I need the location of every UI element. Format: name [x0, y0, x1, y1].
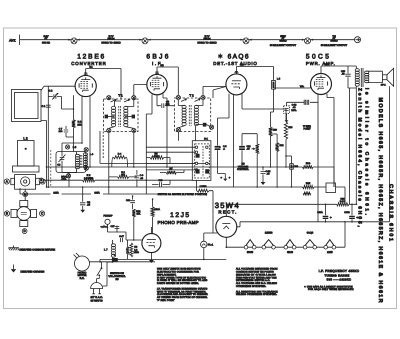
wire right rail b: [349, 88, 351, 204]
svg-text:I.F. FREQUENCY 455KC: I.F. FREQUENCY 455KC: [319, 269, 360, 273]
wire 12J5 plate: [150, 227, 152, 234]
svg-text:12BE6: 12BE6: [265, 232, 273, 235]
svg-text:L 2: L 2: [23, 136, 28, 140]
svg-text:R 2: R 2: [87, 174, 91, 177]
svg-text:FROM: FROM: [203, 37, 210, 40]
svg-text:12J5: 12J5: [327, 251, 333, 254]
svg-text:IS USED IT WILL BE NECESSARY T: IS USED IT WILL BE NECESSARY TO ADD: [157, 279, 208, 282]
resistor R20: [126, 240, 129, 259]
terminal D: [22, 229, 27, 234]
wire left rail top: [47, 86, 49, 120]
wire rail down: [333, 167, 335, 187]
svg-text:PICKUP: PICKUP: [104, 214, 113, 217]
svg-text:AS VIEWED FROM BOTTOM OF CHASS: AS VIEWED FROM BOTTOM OF CHASSIS.: [157, 296, 208, 299]
loop antenna L1: [12, 90, 42, 122]
wire 12BE6 plate cap to T1: [84, 65, 121, 99]
svg-text:'F' REF.: 'F' REF.: [303, 125, 311, 128]
screw T2 right: [210, 125, 214, 129]
variable capacitor C3: [57, 152, 65, 169]
wire B+ down right: [355, 86, 357, 204]
svg-text:DET.-1ST AUDIO: DET.-1ST AUDIO: [213, 61, 257, 66]
svg-text:DETERMINING SWITCH A.C.: DETERMINING SWITCH A.C.: [236, 279, 270, 282]
svg-text:C 2: C 2: [49, 90, 53, 93]
svg-text:SP-1: SP-1: [381, 84, 387, 87]
node signal point 3: [240, 38, 251, 44]
wire 35W4 heater down: [225, 237, 227, 247]
resistor R3: [72, 120, 82, 128]
wire 50C5 screen: [327, 94, 334, 167]
screw T2 top-right: [201, 95, 205, 99]
svg-text:12J5: 12J5: [170, 212, 189, 219]
capacitor C4: [80, 187, 91, 213]
svg-text:455KC: 455KC: [279, 40, 287, 43]
resistor R15: [303, 182, 327, 189]
svg-text:DENOTES COMMON RETURN: DENOTES COMMON RETURN: [20, 249, 56, 252]
phono motor B1: [74, 253, 90, 280]
wire plug to L7: [103, 262, 113, 286]
wire T2 primary: [178, 100, 185, 128]
svg-text:MEG: MEG: [134, 251, 139, 254]
T2 secondary coil: [194, 99, 200, 126]
svg-text:SWITCH S1 SHOWN IN PHONO POSIT: SWITCH S1 SHOWN IN PHONO POSITION: [158, 193, 208, 196]
tube 6BJ6 V2: [147, 74, 167, 94]
tube 35W4 V5: [216, 216, 237, 237]
capacitor C18b: [119, 235, 124, 242]
capacitor C18: [287, 100, 319, 112]
T1 core: [119, 106, 121, 127]
svg-text:135A: 135A: [53, 192, 59, 195]
label 655uV AT 455KC 30 MILLIWATT OUTPUT: [270, 35, 297, 47]
wire left rail 48 extension: [47, 121, 49, 189]
svg-text:50C5: 50C5: [306, 53, 329, 60]
svg-text:ALL VOLTAGES ARE D.C. UNLESS: ALL VOLTAGES ARE D.C. UNLESS: [236, 282, 277, 285]
terminal M: [23, 192, 28, 197]
svg-text:35 WATTS: 35 WATTS: [91, 299, 103, 302]
wire T1 primary: [109, 101, 121, 128]
svg-text:1.5 MEG: 1.5 MEG: [84, 177, 93, 180]
terminal E wire: [39, 178, 43, 182]
label 3.0V AT 600KC: [42, 35, 50, 45]
vertical note Zenith H664: [357, 88, 370, 228]
capacitor C19B: [344, 204, 358, 222]
svg-text:6AQ6: 6AQ6: [307, 232, 314, 235]
shielded pickup lead: [101, 219, 118, 232]
pilot lamp PL-1: [201, 241, 214, 247]
wire T1 box dashed drop: [102, 132, 104, 160]
svg-text:FROM: FROM: [107, 37, 114, 40]
wire T2 bottom down: [194, 126, 196, 141]
svg-text:✶ 6AQ6: ✶ 6AQ6: [218, 53, 249, 60]
svg-text:600 KC: 600 KC: [42, 42, 50, 45]
wire right rail a: [333, 167, 335, 187]
T1 trimmer left: [105, 115, 115, 119]
output transformer T3 primary: [355, 69, 359, 87]
label 12BE6 CONVERTER: [71, 53, 106, 66]
resistor R21: [303, 192, 311, 195]
resistor R19: [151, 199, 160, 234]
wire rail 163: [146, 162, 210, 164]
coil L7: [104, 240, 115, 262]
wire 6AQ6 down 1: [218, 94, 230, 139]
svg-text:C 1: C 1: [42, 105, 46, 108]
filter line: [318, 221, 390, 223]
wire 50C5 plate top: [321, 63, 356, 74]
capacitor C8: [215, 139, 231, 181]
volume control R9: [252, 144, 259, 187]
capacitor C1: [42, 105, 51, 108]
wire r6: [146, 158, 170, 164]
note IF transformer numbering: [157, 287, 208, 302]
screw T2 top-left: [176, 95, 180, 99]
wire motor line: [90, 259, 156, 261]
ground legend chassis: [11, 265, 45, 274]
resistor R7: [160, 167, 184, 174]
output transformer secondary: [365, 71, 369, 83]
wire c14 top: [286, 155, 292, 157]
wire signal line: [20, 39, 357, 41]
label 7.5 AT 400 50 MILLIWATT OUTPUT: [321, 35, 348, 47]
resistor R2: [77, 174, 193, 182]
svg-text:50 MILLIWATT OUTPUT: 50 MILLIWATT OUTPUT: [321, 44, 348, 47]
heater 12BE6 pair: [262, 232, 275, 249]
svg-text:CLOCKWISE AND ADJACENT TO NUMB: CLOCKWISE AND ADJACENT TO NUMBER: [157, 293, 208, 296]
wire T1 return L: [100, 131, 146, 163]
wire det top link: [242, 134, 257, 144]
resistor R8: [130, 243, 139, 257]
svg-text:R14: R14: [306, 162, 311, 165]
switch S1 box: [192, 138, 211, 181]
label 12J5 PHONO PRE-AMP: [158, 212, 199, 225]
heater 12J5 pair: [324, 240, 336, 255]
wire speaker return: [389, 86, 391, 222]
svg-text:CONTROL: CONTROL: [237, 168, 249, 171]
wire lower bus left end: [19, 188, 21, 194]
svg-text:535 ——1620KC: 535 ——1620KC: [327, 277, 352, 281]
screw T1 top-left: [107, 96, 111, 100]
wire secondary to speaker: [366, 71, 383, 82]
svg-text:COMMON RETURN TIE POINTS: COMMON RETURN TIE POINTS: [236, 271, 274, 274]
antenna connector socket: [11, 175, 40, 190]
node signal point 1: [68, 38, 79, 44]
tube 6AQ6 V3: [226, 74, 247, 95]
svg-text:600KC TO 455KC: 600KC TO 455KC: [197, 42, 216, 45]
svg-text:R15: R15: [306, 182, 311, 185]
note resistor tolerance: [236, 290, 278, 296]
vertical title MODELS: [377, 98, 394, 303]
svg-text:600KC TO 455KC: 600KC TO 455KC: [101, 42, 120, 45]
svg-text:T 1: T 1: [118, 93, 123, 97]
svg-text:FOR 6AQ6 ONLY WHEN NECESSARY.: FOR 6AQ6 ONLY WHEN NECESSARY.: [308, 288, 354, 291]
wire filament chain: [226, 246, 345, 248]
label 35W4 RECT: [215, 201, 239, 214]
wire osc grid: [62, 95, 74, 120]
wire avc vertical: [233, 95, 235, 187]
capacitor C15: [341, 66, 356, 88]
svg-text:R19A: R19A: [154, 208, 160, 211]
svg-text:ELECTROLYTIC CONDENSER FOR: ELECTROLYTIC CONDENSER FOR: [157, 271, 199, 274]
wire 6AQ6 down 2: [242, 94, 286, 110]
label 2.7V FROM 600KC TO 455KC (2): [197, 35, 216, 45]
node signal point 4: [302, 38, 313, 44]
terminal C: [40, 211, 45, 216]
svg-text:R.C.: R.C.: [80, 277, 85, 280]
coupling L6: [272, 78, 281, 90]
note 6AT6 substitute: [304, 285, 354, 291]
svg-text:2.2 M: 2.2 M: [340, 200, 346, 203]
capacitor C7: [59, 126, 74, 137]
svg-text:V.G.: V.G.: [300, 85, 305, 88]
wire grid 12J5: [117, 217, 142, 240]
screw T2 bottom-left: [176, 128, 180, 132]
svg-text:+: +: [330, 215, 332, 219]
capacitor C12: [239, 134, 251, 167]
wire T1 right screw down: [133, 133, 135, 167]
screw T1 bottom-right: [132, 128, 136, 132]
wire common bus: [47, 186, 303, 188]
label 50C5 PWR AMP: [306, 53, 335, 66]
note voltages measured: [236, 268, 278, 288]
svg-text:1 MEG: 1 MEG: [200, 185, 207, 188]
screw T1 bottom-left: [107, 128, 111, 132]
IF transformer T2 box: [174, 93, 210, 131]
screw L3 adjust: [66, 145, 77, 149]
ground legend common return: [9, 246, 56, 252]
wire chain end up: [344, 222, 346, 247]
component box right: [326, 183, 345, 204]
svg-text:E: E: [40, 178, 42, 182]
svg-text:S-1: S-1: [204, 138, 208, 141]
capacitor C11 dashed: [284, 106, 290, 123]
capacitor C14: [290, 156, 299, 187]
terminal B: [4, 211, 9, 216]
wire 50C5 cathode: [317, 95, 319, 222]
svg-text:47K: 47K: [121, 173, 125, 176]
wire 35W4 plate: [226, 204, 302, 216]
svg-text:REPLACEMENT.: REPLACEMENT.: [157, 273, 177, 276]
wire AVC rail: [47, 166, 303, 168]
label 6BJ6 I.F.: [146, 53, 168, 66]
resistor R13: [284, 109, 293, 167]
svg-text:ALL RESISTORS 20% TOLERANCE: ALL RESISTORS 20% TOLERANCE: [236, 290, 278, 293]
trimmer capacitor C2: [48, 90, 61, 110]
T1 primary coil: [111, 99, 117, 127]
wire pilot: [204, 233, 217, 259]
wire 6BJ6 screen: [163, 94, 167, 168]
capacitor C13: [261, 167, 272, 185]
T2 primary coil: [181, 99, 187, 126]
svg-text:47K: 47K: [136, 212, 140, 215]
label 2.7V FROM 600KC TO 455KC: [101, 35, 120, 45]
label R9 VOLUME CONTROL: [237, 163, 249, 172]
svg-text:135A: 135A: [94, 192, 100, 195]
svg-text:PARTS SHOWN IN DOTTED LINES.: PARTS SHOWN IN DOTTED LINES.: [157, 282, 199, 285]
svg-text:✶ USE 6AT6 AS A DIRECT SUBSTIT: ✶ USE 6AT6 AS A DIRECT SUBSTITUTE: [304, 285, 353, 288]
antenna terminal ANT: [9, 35, 19, 46]
label RAD CH-L: [61, 175, 67, 181]
svg-text:MFD.: MFD.: [291, 109, 297, 112]
svg-text:PHONO PRE-AMP: PHONO PRE-AMP: [158, 220, 199, 225]
resistor R10: [269, 112, 278, 167]
coil L4: [83, 148, 93, 171]
IF transformer T1 box: [104, 93, 139, 131]
wire bottom bus: [100, 258, 226, 260]
wire loop to converter grid: [41, 86, 75, 90]
switch on volume control: [97, 262, 126, 281]
resistor R18: [132, 209, 141, 217]
svg-text:C19B: C19B: [344, 211, 350, 214]
T2 core: [189, 105, 191, 126]
rod antenna L2: [13, 141, 40, 173]
capacitor C5: [157, 95, 174, 108]
svg-text:I.F. TRANSFORMER NUMBERING STA: I.F. TRANSFORMER NUMBERING STARTS: [157, 287, 208, 290]
speaker SP-1: [381, 68, 394, 86]
svg-text:470K: 470K: [153, 155, 159, 158]
svg-text:6BJ6: 6BJ6: [287, 251, 293, 254]
output transformer core: [361, 68, 363, 87]
svg-text:C-18: C-18: [292, 104, 298, 107]
svg-text:L 7: L 7: [104, 248, 108, 251]
wire osc box bottom: [62, 169, 77, 188]
resistor R16: [303, 197, 357, 206]
wire 6BJ6 cathode: [146, 95, 152, 195]
svg-text:30 MILLIWATT OUTPUT: 30 MILLIWATT OUTPUT: [270, 44, 297, 47]
oscillator coil L3 box: [56, 152, 86, 173]
svg-text:PL-1: PL-1: [208, 244, 214, 247]
svg-text:10K: 10K: [77, 123, 82, 126]
wire T1 left screw down: [108, 133, 110, 194]
tube 12BE6 V1: [75, 75, 96, 96]
wire lower bus: [20, 192, 157, 195]
svg-text:50C5: 50C5: [247, 251, 254, 254]
wire T2 left screw down: [177, 132, 179, 141]
node signal end point: [355, 37, 361, 43]
wire T2 secondary top to diode: [195, 87, 226, 106]
svg-text:400KC: 400KC: [330, 40, 338, 43]
wire 6AQ6 plate top: [234, 63, 273, 80]
resistor R14: [303, 162, 335, 169]
screw T1 top-right: [132, 96, 136, 100]
svg-text:C-13: C-13: [266, 170, 272, 173]
label F REF POINT: [303, 125, 311, 131]
capacitor C16: [126, 196, 135, 209]
svg-text:OTHERWISE SPECIFIED.: OTHERWISE SPECIFIED.: [236, 285, 266, 288]
svg-text:(INDICATED BY +) WITH A 20,000: (INDICATED BY +) WITH A 20,000: [236, 273, 276, 276]
tuning gang dashed link: [50, 150, 52, 186]
label 6AQ6 DET-1ST AUDIO: [213, 53, 257, 66]
wire 6AQ6 left grid: [213, 87, 226, 99]
svg-text:117V: 117V: [325, 63, 330, 66]
capacitor C10: [152, 179, 170, 187]
wire 6BJ6 plate to T2: [155, 64, 178, 96]
ground 12J5 cathode: [149, 253, 154, 263]
wires into S1: [146, 147, 195, 170]
tube 50C5 V4: [311, 74, 332, 95]
T1 secondary coil: [124, 99, 130, 127]
wire L6 to 50C5 grid: [270, 86, 310, 112]
coil L3: [75, 152, 81, 169]
svg-text:RAD.: RAD.: [61, 175, 67, 178]
svg-text:OHM-PER-VOLT METER AND THE: OHM-PER-VOLT METER AND THE: [236, 276, 277, 279]
capacitor C9: [135, 170, 144, 187]
resistor R6: [150, 152, 164, 159]
tube 12J5 V6: [142, 234, 161, 253]
svg-text:L 3: L 3: [73, 146, 77, 149]
svg-text:ANT.: ANT.: [9, 38, 16, 42]
heater 50C5 pair: [244, 240, 256, 255]
svg-text:RECT.: RECT.: [218, 209, 236, 214]
svg-text:UNLESS OTHERWISE SPECIFIED.: UNLESS OTHERWISE SPECIFIED.: [236, 293, 277, 296]
capacitor C20: [112, 253, 118, 261]
T1 trimmer right: [125, 115, 135, 119]
svg-text:POINT: POINT: [303, 128, 311, 131]
note electrolytic replacement: [157, 268, 208, 286]
svg-text:IF ANY OTHER TYPE OF ELECTROLY: IF ANY OTHER TYPE OF ELECTROLYTIC: [157, 276, 206, 279]
heater 6AQ6 pair: [303, 232, 316, 249]
resistor R17: [197, 185, 209, 192]
svg-text:USE ONLY ZENITH NON-INDUCTIVE: USE ONLY ZENITH NON-INDUCTIVE: [157, 268, 201, 271]
wire 12BE6 cathode down: [62, 96, 82, 151]
label switch note: [158, 193, 208, 196]
terminal E: [40, 179, 45, 184]
terminal A: [4, 179, 9, 184]
note IF frequency: [319, 269, 360, 282]
capacitor C17: [110, 225, 119, 232]
wire 35W4 cathode: [237, 222, 318, 227]
svg-text:'F' REF. POINT: 'F' REF. POINT: [157, 299, 175, 302]
heater 6BJ6 pair: [284, 240, 296, 255]
resistor R5: [109, 171, 137, 179]
svg-text:B: B: [6, 212, 8, 216]
power plug P1: [90, 276, 103, 302]
svg-text:WITH 'A' TERMINAL AS FIRST TER: WITH 'A' TERMINAL AS FIRST TERMINAL: [157, 290, 207, 293]
resistor R12: [275, 134, 284, 187]
svg-text:PWR. AMP.: PWR. AMP.: [306, 61, 335, 66]
wire r12 top: [270, 133, 277, 135]
capacitor C19A: [317, 204, 332, 222]
node signal point 2: [139, 38, 150, 44]
svg-text:T 2: T 2: [189, 93, 194, 97]
svg-text:C19A: C19A: [317, 211, 323, 214]
svg-text:MODELS H665, H665R, H665Z, H66: MODELS H665, H665R, H665Z, H665RZ, H661E…: [377, 98, 383, 303]
wire S1 bottom: [197, 180, 214, 233]
wire loop bottom to left rail: [41, 121, 47, 188]
wire R3 to osc coil: [73, 128, 75, 152]
T2 trimmer: [195, 123, 209, 127]
svg-text:CHASSIS 6H01: CHASSIS 6H01: [388, 184, 394, 241]
wire plug connector: [24, 189, 26, 200]
wire-connector 4-lobe: [11, 201, 37, 227]
resistor R4 bridge: [112, 152, 128, 167]
wire 12BE6 screen down: [89, 96, 91, 167]
wire E to R2: [44, 179, 77, 181]
svg-text:ALL VOLTAGES MEASURED FROM: ALL VOLTAGES MEASURED FROM: [236, 268, 278, 271]
wire T1 to 6BJ6 grid: [134, 85, 147, 96]
S1 contacts: [195, 146, 209, 177]
wire T1 secondary: [125, 100, 134, 129]
svg-text:CONVERTER: CONVERTER: [71, 61, 106, 66]
svg-text:DENOTES CHASSIS: DENOTES CHASSIS: [21, 270, 45, 273]
